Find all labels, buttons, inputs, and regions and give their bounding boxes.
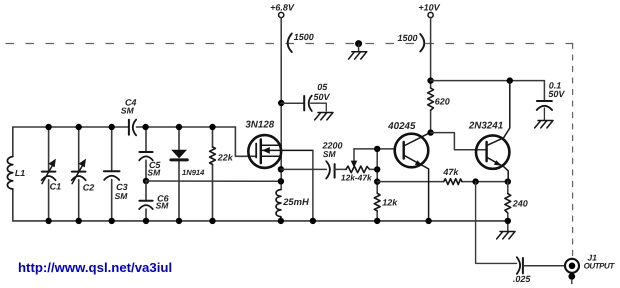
svg-text:12k: 12k (382, 198, 398, 208)
node 25mH ground (278, 218, 284, 224)
resistor 47k (444, 179, 462, 185)
node 12k ground (374, 218, 380, 224)
resistor 22k (212, 127, 214, 221)
svg-text:620: 620 (435, 96, 450, 106)
node top rail C2 (76, 124, 82, 130)
wire +6.8V vertical (280, 18, 282, 190)
node 40245 emitter ground (425, 218, 431, 224)
node bottom rail 22k (209, 218, 215, 224)
wire rheostat wiper / base line (354, 148, 395, 150)
svg-text:3N128: 3N128 (245, 119, 274, 130)
svg-text:+10V: +10V (418, 3, 440, 13)
wire +10V vertical (430, 18, 432, 133)
capacitor C6 (145, 181, 147, 221)
svg-text:1500: 1500 (294, 32, 314, 42)
svg-text:SM: SM (121, 105, 135, 115)
svg-text:.025: .025 (513, 274, 532, 284)
capacitor C4 (series) (128, 120, 130, 135)
node top rail 22k (209, 124, 215, 130)
wire cap to rheostat (335, 168, 346, 170)
svg-text:SM: SM (115, 191, 129, 201)
node 240/emitter (505, 178, 511, 184)
ground on shield line (355, 40, 362, 47)
node output tap (472, 178, 478, 184)
node substrate ground (310, 218, 316, 224)
ground of .05 cap (315, 113, 333, 120)
wire to .05 cap (281, 102, 304, 104)
diode 1N914 (178, 127, 180, 221)
wire collector node to 2N3241 base (431, 133, 487, 150)
svg-text:SM: SM (156, 201, 170, 211)
variable capacitor C2 (78, 127, 80, 221)
svg-text:+6.8V: +6.8V (270, 3, 295, 13)
wire tank bottom rail (ground rail) (13, 220, 508, 222)
wire +10V rail to 0.1 cap (431, 80, 545, 82)
svg-text:L1: L1 (15, 168, 25, 178)
svg-text:2N3241: 2N3241 (468, 121, 503, 132)
node top rail diode (176, 124, 182, 130)
svg-text:40245: 40245 (387, 121, 416, 132)
wire bias node vertical (376, 149, 378, 221)
wire gate lead (235, 127, 256, 156)
capacitor C3 (111, 127, 113, 221)
feedthrough capacitor 1500 (right) (420, 34, 424, 52)
node C5/C6 junction (143, 178, 149, 184)
inductor L1 (12, 127, 14, 221)
node top rail C3 (109, 124, 115, 130)
wire substrate to ground rail (312, 150, 314, 221)
svg-text:C2: C2 (83, 182, 95, 192)
capacitor .025 (517, 257, 520, 274)
node +6.8V / .05 branch (278, 100, 284, 106)
ground of 240 (497, 232, 515, 239)
node 40245 collector (427, 129, 433, 135)
wire source to coupling cap (281, 168, 327, 170)
svg-text:1N914: 1N914 (182, 168, 205, 177)
variable capacitor C1 (48, 127, 50, 221)
feedthrough capacitor 1500 (left) (288, 34, 292, 53)
shield boundary dashed line (right) (572, 44, 574, 257)
node +10V / 0.1 branch (427, 77, 433, 83)
wire 47k feedback line (377, 181, 508, 183)
watermark URL (18, 260, 172, 275)
node top rail C5 (142, 124, 148, 130)
wire rheostat out (370, 168, 378, 170)
svg-text:50V: 50V (313, 92, 330, 102)
rheostat 12k-47k (346, 166, 370, 173)
wire cap to J1 (523, 265, 565, 267)
ground of 0.1 cap (535, 121, 553, 128)
svg-text:240: 240 (512, 199, 528, 209)
node bottom rail C2 (76, 218, 82, 224)
node bottom rail diode (176, 218, 182, 224)
resistor 240 (507, 182, 509, 194)
wire output tap down to coupling cap (476, 182, 517, 264)
capacitor .05 50V (303, 96, 305, 110)
connector J1 OUTPUT (565, 259, 579, 273)
node bottom rail C6 (143, 218, 149, 224)
svg-text:1500: 1500 (397, 33, 417, 43)
capacitor 2200 SM (326, 161, 330, 178)
node 240 ground (505, 218, 511, 224)
svg-text:05: 05 (317, 82, 328, 92)
node wiper junction (374, 146, 380, 152)
svg-text:22k: 22k (217, 153, 234, 163)
RF choke 25mH (276, 190, 281, 221)
wire tank top rail (13, 126, 236, 128)
node FET source / tank tap (278, 178, 284, 184)
wire C5/C6 junction to FET source line (146, 180, 281, 182)
node collector feed (507, 77, 513, 83)
svg-text:OUTPUT: OUTPUT (584, 261, 616, 270)
node 2200/12k (374, 166, 380, 172)
svg-text:SM: SM (323, 149, 337, 159)
resistor 620 (428, 88, 434, 110)
resistor 12k (374, 193, 380, 211)
capacitor C5 (145, 127, 147, 181)
svg-text:12k-47k: 12k-47k (341, 173, 372, 183)
svg-text:C1: C1 (50, 181, 62, 191)
capacitor 0.1 50V (543, 81, 545, 101)
node 47k tap (374, 178, 380, 184)
svg-text:47k: 47k (442, 167, 459, 177)
svg-text:SM: SM (147, 167, 161, 177)
shield boundary dashed line (top) (2, 43, 573, 45)
node bottom rail C1 (45, 218, 51, 224)
svg-text:50V: 50V (548, 89, 565, 99)
node top rail C1 (45, 124, 51, 130)
svg-text:25mH: 25mH (282, 196, 309, 207)
node bottom rail C3 (109, 218, 115, 224)
node FET source / 2200 branch (278, 166, 284, 172)
